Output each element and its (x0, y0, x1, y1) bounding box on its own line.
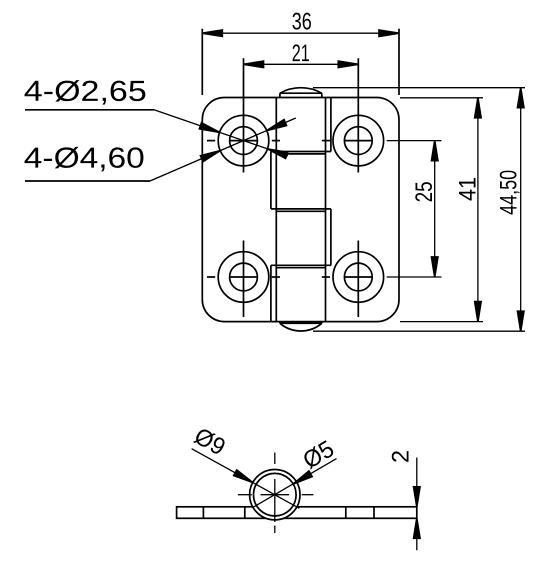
hole bottom-left through circle D2.65 (230, 263, 258, 291)
label 4-D4.60 text (24, 143, 145, 175)
dim 25 bottom arrowhead (432, 257, 438, 277)
dim 21 text (292, 40, 310, 67)
hole top-right counterbore circle D4.60 (333, 115, 384, 166)
dim 36 dimension line (202, 32, 399, 34)
label D5 text (298, 436, 338, 475)
dim 21 left arrowhead (244, 61, 264, 67)
dim 21 dimension line (244, 63, 359, 65)
dim 36 text (292, 8, 312, 35)
dim 41 text (454, 177, 481, 201)
label 4-D2.65 text (24, 76, 147, 108)
leader line for D5 (253, 459, 336, 508)
leader 4-D4.60 far arrowhead (267, 120, 287, 131)
side view plate outline (177, 507, 417, 519)
hole bottom-left vertical centerline (243, 241, 245, 318)
knuckle cutout outer line right (third segment) (330, 209, 332, 265)
svg-text:21: 21 (292, 40, 310, 67)
hinge leaf plate outline (top view, rounded rect 36x41) (202, 98, 399, 322)
svg-text:4-Ø2,65: 4-Ø2,65 (24, 76, 147, 108)
pin bottom end cap (dome) (280, 322, 322, 331)
side view pin circle D5 (253, 473, 296, 516)
svg-text:4-Ø4,60: 4-Ø4,60 (24, 143, 145, 175)
side view circle centerline vertical (274, 453, 276, 534)
hole top-right center mark horizontal (322, 140, 372, 142)
hole bottom-right counterbore circle D4.60 (333, 252, 384, 303)
leader D5 arrowhead (293, 471, 312, 484)
knuckle cutout outer line right (top segment) (330, 98, 332, 152)
knuckle cut 3 upper line (271, 264, 331, 266)
knuckle cutout outer line left (second segment) (270, 152, 272, 209)
svg-text:36: 36 (292, 8, 312, 35)
svg-text:25: 25 (411, 181, 438, 202)
side view plate division line 3 (345, 507, 347, 519)
dim 36 extension lines (202, 29, 399, 95)
side view barrel outer circle D9 (250, 470, 300, 520)
dim 41 extension lines (400, 98, 483, 322)
dim 25 top arrowhead (432, 141, 438, 161)
dim 2 dimension line lower (416, 518, 418, 550)
side view plate division line 1 (202, 507, 204, 519)
svg-text:2: 2 (388, 450, 415, 463)
dim 2 upper arrowhead (414, 487, 420, 507)
dim 44.50 extension lines (313, 88, 525, 332)
dim 36 left arrowhead (202, 30, 222, 36)
dim 25 text (411, 181, 438, 202)
dim 2 dimension line upper (416, 458, 418, 507)
leader line for 4-D4.60 (25, 118, 296, 181)
dim 25 extension lines (387, 141, 442, 277)
dim 36 right arrowhead (379, 30, 399, 36)
dim 44.50 dimension line (520, 88, 522, 332)
hinge barrel right vertical line (325, 98, 327, 322)
label D9 text (190, 423, 230, 462)
pin top end cap (dome) (280, 88, 322, 98)
leader 4-D2.65 near arrowhead (199, 123, 219, 133)
hole bottom-right vertical centerline (357, 241, 359, 318)
hole bottom-left center mark horizontal (207, 276, 280, 278)
dim 2 text (388, 450, 415, 463)
hole top-left vertical centerline (extension of 21 dim) (243, 58, 245, 172)
leader line for 4-D2.65 (25, 110, 288, 156)
knuckle cutout outer line left (bottom segment) (270, 265, 272, 321)
hole bottom-left counterbore circle D4.60 (218, 252, 269, 303)
hole bottom-right center mark horizontal (322, 276, 372, 278)
knuckle cut 1 lower line (276, 153, 325, 155)
hole top-left center mark horizontal (207, 140, 280, 142)
hole bottom-right through circle D2.65 (344, 263, 372, 291)
svg-text:44,50: 44,50 (495, 170, 522, 215)
side view plate division line 4 (373, 507, 375, 519)
dim 44.50 top arrowhead (518, 88, 524, 108)
hole top-left through circle D2.65 (230, 127, 258, 155)
knuckle cut 3 lower line (276, 267, 325, 269)
side view plate division line 2 (244, 507, 246, 519)
leader D9 arrowhead (234, 470, 253, 483)
knuckle cut 2 lower line (276, 210, 325, 212)
hole top-left counterbore circle D4.60 (218, 115, 269, 166)
dim 41 bottom arrowhead (475, 302, 481, 322)
dim 41 top arrowhead (475, 98, 481, 118)
knuckle cut 2 upper line (271, 208, 331, 210)
hole top-right through circle D2.65 (344, 127, 372, 155)
knuckle cut 1 upper line (271, 151, 331, 153)
dim 2 lower arrowhead (414, 518, 420, 538)
dim 44.50 bottom arrowhead (518, 311, 524, 331)
svg-text:41: 41 (454, 177, 481, 201)
leader 4-D2.65 far arrowhead (268, 149, 288, 159)
leader 4-D4.60 near arrowhead (201, 151, 221, 162)
hole top-right vertical centerline (extension of 21 dim) (357, 58, 359, 172)
dim 21 right arrowhead (338, 61, 358, 67)
side view circle centerline horizontal (238, 494, 314, 496)
dim 25 dimension line (434, 141, 436, 277)
leader line for D9 (192, 449, 300, 509)
dim 41 dimension line (477, 98, 479, 322)
hinge barrel left vertical line (275, 98, 277, 322)
svg-text:Ø9: Ø9 (190, 423, 230, 462)
dim 44.50 text (495, 170, 522, 215)
